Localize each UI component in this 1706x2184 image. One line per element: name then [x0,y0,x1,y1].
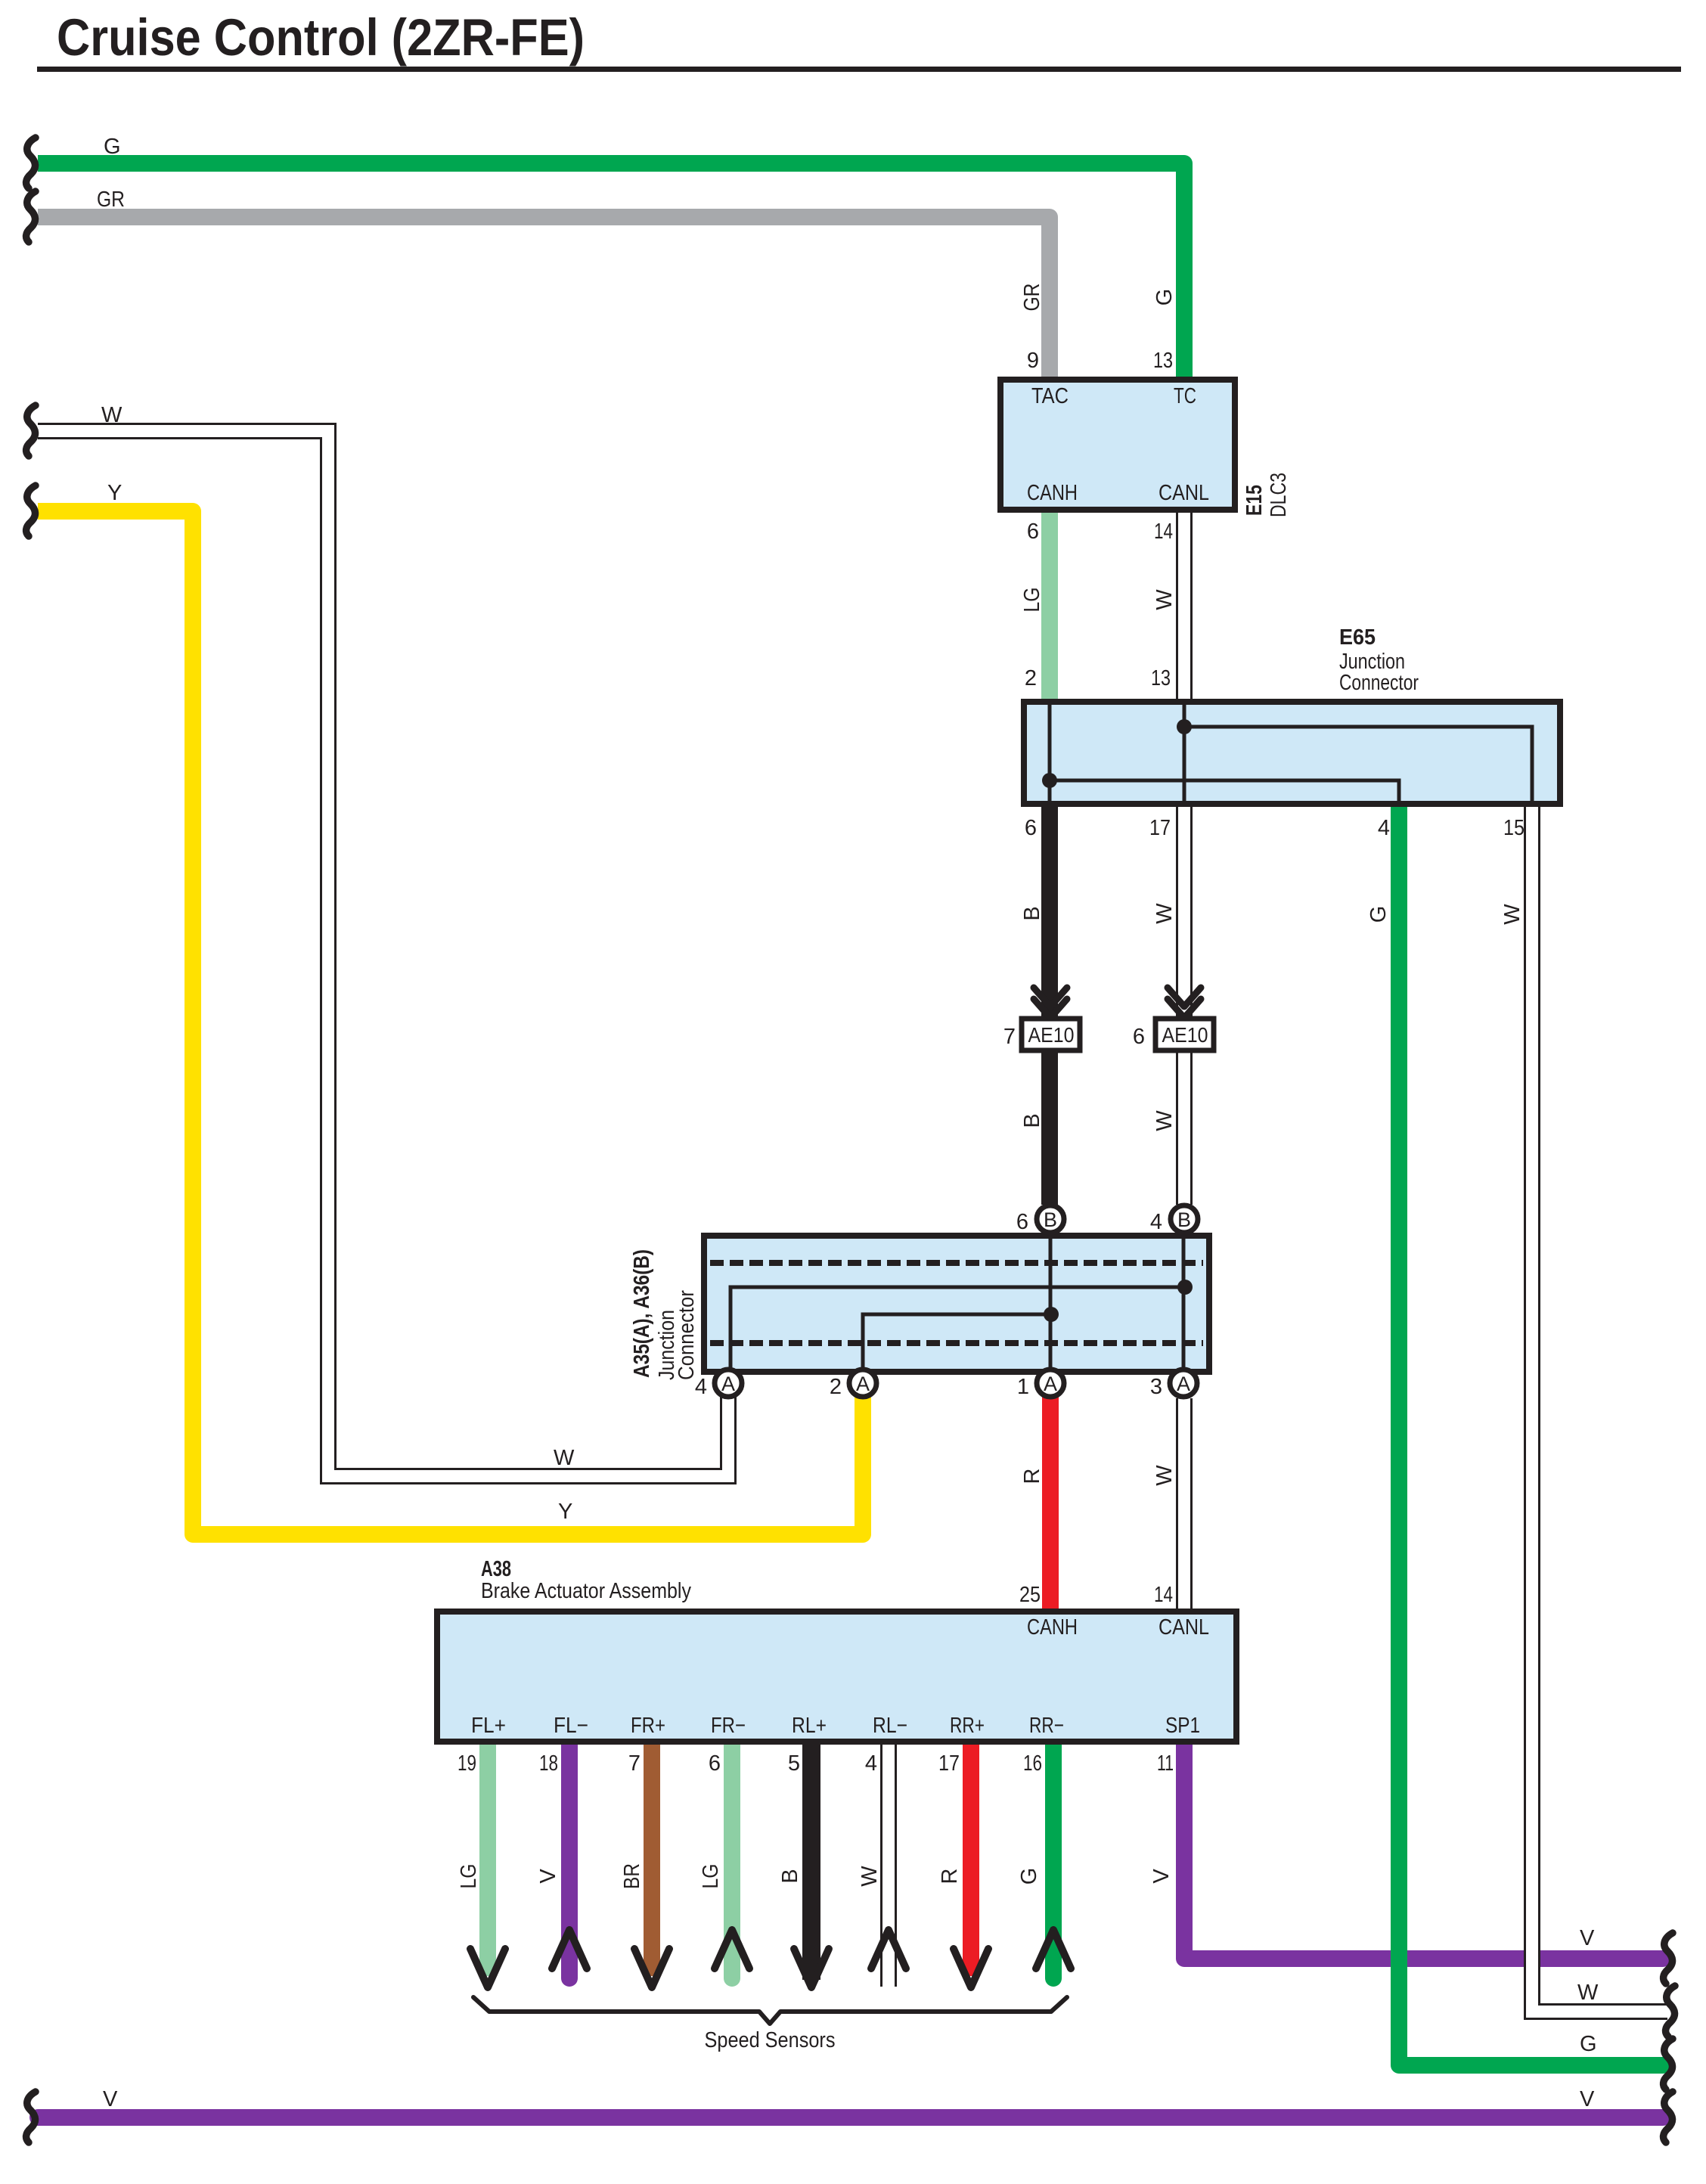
svg-text:V: V [536,1869,560,1884]
svg-text:2: 2 [1025,666,1037,690]
svg-text:LG: LG [457,1864,481,1889]
connector boxes layer [437,380,1560,1742]
svg-text:V: V [103,2087,118,2111]
svg-text:5: 5 [788,1751,800,1776]
svg-text:E65: E65 [1339,625,1376,650]
speed sensor stub W pin4 [880,1742,897,1987]
wire W E65-A35 4B [1176,804,1193,1205]
svg-text:15: 15 [1503,816,1525,840]
speed sensor stub LG pin6 [724,1742,740,1978]
AE10 connector right [1155,1019,1214,1050]
svg-text:B: B [1020,1113,1044,1128]
node 3 A [1170,1370,1197,1397]
wire LG E15-E65 [1041,510,1058,702]
wire E65 pin13-pin17 vertical [1183,702,1186,804]
node A35 on 3A line [1177,1280,1193,1295]
arrow up pin6 [715,1930,749,1968]
AE10 connector left [1022,1019,1080,1050]
svg-text:RL+: RL+ [792,1714,827,1738]
svg-text:RR−: RR− [1029,1714,1064,1738]
svg-text:A35(A), A36(B): A35(A), A36(B) [630,1249,654,1378]
wire A35 4B-3A vertical [1182,1236,1186,1369]
wire E65 branch to pin15 [1184,727,1532,804]
wire A35 6B-1A vertical [1049,1236,1053,1369]
wire W from E65 pin15 [1532,804,1667,2012]
svg-text:B: B [778,1869,802,1883]
svg-text:4: 4 [1378,816,1390,840]
svg-text:CANH: CANH [1027,481,1078,505]
wire E65 pin2-pin6 vertical [1048,702,1052,804]
A35 interior [710,1236,1203,1369]
connector A38 brake actuator [437,1612,1236,1742]
break V right [1664,1933,1673,1984]
arrow up pin4 [871,1930,906,1968]
break GR left [26,191,36,242]
svg-text:4: 4 [865,1751,877,1776]
svg-text:RL−: RL− [873,1714,907,1738]
svg-text:CANL: CANL [1159,481,1209,505]
svg-text:W: W [554,1446,575,1470]
connector designations [481,473,1419,1603]
E65 interior wiring [1050,702,1532,804]
arrow down pin5 [794,1949,829,1987]
break V bottom-right [1664,2092,1673,2142]
node 6 B [1037,1205,1064,1233]
svg-text:LG: LG [1020,588,1044,613]
svg-text:7: 7 [1003,1025,1016,1049]
break Y left [26,486,36,536]
svg-text:11: 11 [1157,1751,1174,1776]
break V bottom-left [26,2092,36,2142]
svg-text:W: W [1500,904,1525,925]
node 1 A [1037,1370,1064,1397]
wire W top left [38,431,728,1476]
wire G top [38,163,1184,380]
connector E15 DLC3 [1000,380,1235,510]
svg-text:RR+: RR+ [950,1714,985,1738]
speed sensor arrows [470,1930,1071,1987]
svg-text:17: 17 [1149,816,1171,840]
rotated wire color labels [457,284,1525,1890]
speed sensor stub B pin5 [802,1742,820,1980]
svg-text:6: 6 [1133,1025,1145,1049]
svg-text:AE10: AE10 [1028,1023,1075,1047]
svg-text:GR: GR [1020,284,1044,312]
svg-text:6: 6 [709,1751,721,1776]
svg-text:Cruise Control (2ZR-FE): Cruise Control (2ZR-FE) [57,8,585,67]
svg-text:A: A [1044,1373,1057,1395]
svg-text:BR: BR [620,1863,644,1889]
svg-text:B: B [1044,1208,1057,1231]
svg-text:Connector: Connector [1339,671,1419,695]
svg-text:6: 6 [1025,816,1037,840]
wire V from A38 pin11 [1184,1742,1663,1959]
svg-text:1: 1 [1017,1375,1029,1399]
svg-text:3: 3 [1150,1375,1162,1399]
speed sensor stub LG pin19 [479,1742,496,1976]
svg-text:13: 13 [1151,666,1171,690]
svg-text:W: W [1152,589,1177,610]
svg-text:14: 14 [1154,520,1173,544]
node 4 B [1171,1205,1198,1233]
node E65 CANL junction [1177,719,1192,734]
wire B E65-A35 [1041,804,1058,1205]
svg-text:25: 25 [1019,1583,1041,1607]
speed sensor stub G pin16 [1045,1742,1062,1978]
wire V bottom horizontal [38,2109,1663,2126]
speed sensor stub V pin18 [561,1742,578,1978]
svg-text:B: B [1177,1208,1191,1231]
svg-text:V: V [1580,1926,1595,1950]
svg-text:9: 9 [1027,349,1039,373]
svg-text:GR: GR [97,188,125,212]
svg-text:TC: TC [1174,384,1196,408]
svg-text:6: 6 [1016,1210,1028,1234]
svg-text:V: V [1580,2087,1595,2111]
svg-text:Y: Y [107,481,122,505]
svg-text:A: A [856,1373,870,1395]
speed sensor stub BR pin7 [644,1742,660,1976]
svg-text:FL+: FL+ [471,1714,506,1738]
node 2 A [849,1370,876,1397]
arrow down pin7 [634,1949,669,1987]
svg-text:G: G [1017,1868,1041,1885]
node 4 A [715,1370,742,1397]
svg-text:G: G [1152,289,1177,306]
arrow B into AE10 [1034,988,1067,1007]
svg-text:LG: LG [699,1864,723,1889]
svg-text:W: W [1152,1465,1177,1486]
wire W 3A-A38 CANL [1176,1398,1193,1612]
svg-text:SP1: SP1 [1165,1714,1200,1738]
svg-text:CANL: CANL [1159,1615,1209,1640]
svg-text:A: A [721,1373,735,1395]
speed sensors brace [473,1997,1067,2052]
svg-text:DLC3: DLC3 [1267,473,1291,517]
svg-text:14: 14 [1154,1583,1173,1607]
svg-text:W: W [1152,903,1177,924]
svg-text:R: R [938,1869,962,1885]
svg-text:Speed Sensors: Speed Sensors [705,2028,836,2052]
svg-text:CANH: CANH [1027,1615,1078,1640]
wire W E15-E65 [1176,510,1193,702]
svg-text:W: W [858,1866,882,1887]
break G right [1664,2039,1673,2089]
svg-text:G: G [1366,906,1391,923]
svg-text:W: W [1577,1981,1599,2005]
svg-text:FL−: FL− [554,1714,588,1738]
dashed separator upper [710,1260,1203,1266]
svg-text:2: 2 [830,1375,842,1399]
svg-text:19: 19 [458,1751,476,1776]
arrow up pin16 [1036,1930,1071,1968]
wire G from E65 pin4 [1399,804,1663,2065]
arrow down pin17 [954,1949,988,1987]
connector A35(A) A36(B) junction [704,1236,1209,1372]
connector E65 junction [1024,702,1560,804]
svg-text:13: 13 [1153,349,1173,373]
connector circles [715,1205,1198,1397]
svg-text:E15: E15 [1242,485,1267,516]
svg-text:4: 4 [1150,1210,1162,1234]
svg-text:Brake Actuator Assembly: Brake Actuator Assembly [481,1579,691,1603]
wire A35 branch 2A [863,1314,1051,1369]
wire GR top [38,217,1050,380]
arrow W into AE10 [1168,988,1201,1007]
svg-text:18: 18 [539,1751,558,1776]
horizontal wire name labels [97,135,1599,2111]
svg-text:V: V [1149,1869,1174,1884]
title [37,8,1681,72]
wire A35 branch 4A [730,1287,1185,1369]
svg-text:7: 7 [628,1751,641,1776]
svg-text:B: B [1020,906,1044,920]
svg-text:Y: Y [558,1500,572,1524]
arrow up pin18 [552,1930,587,1968]
svg-text:R: R [1020,1469,1044,1484]
break W left [26,405,36,456]
svg-text:AE10: AE10 [1162,1023,1208,1047]
arrows into AE10 [1034,988,1201,1018]
svg-text:6: 6 [1027,520,1039,544]
wire Y [38,511,863,1534]
arrow down pin19 [470,1949,505,1987]
svg-text:A: A [1177,1373,1190,1395]
svg-text:Connector: Connector [675,1290,699,1380]
svg-text:G: G [104,135,121,159]
wire R 1A-A38 [1042,1383,1059,1612]
break W right [1666,1986,1675,2037]
svg-text:W: W [101,403,123,427]
svg-text:W: W [1152,1110,1177,1131]
svg-text:16: 16 [1023,1751,1042,1776]
svg-text:G: G [1580,2032,1597,2056]
node E65 CANH junction [1042,773,1057,788]
node A35 on 1A line [1044,1307,1059,1322]
speed sensor stub R pin17 [963,1742,979,1976]
svg-text:FR−: FR− [711,1714,746,1738]
connector inner pin names [1027,384,1209,1640]
dashed separator lower [710,1340,1203,1346]
svg-text:TAC: TAC [1031,384,1069,408]
svg-text:FR+: FR+ [631,1714,665,1738]
svg-text:17: 17 [938,1751,960,1776]
wire E65 branch to pin4 [1050,780,1399,804]
break G left [26,138,36,188]
svg-text:A38: A38 [481,1557,511,1581]
